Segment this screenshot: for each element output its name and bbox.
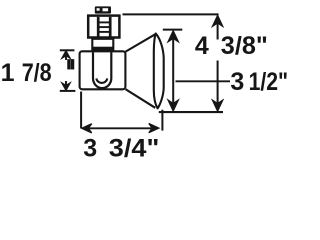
svg-text:3: 3 (83, 135, 97, 163)
svg-text:3/8": 3/8" (221, 32, 268, 60)
svg-text:1: 1 (1, 59, 15, 87)
svg-text:7/8: 7/8 (22, 59, 52, 87)
svg-text:3/4": 3/4" (109, 135, 160, 163)
svg-text:1/2": 1/2" (249, 68, 289, 96)
svg-text:4: 4 (195, 32, 209, 60)
svg-text:3: 3 (230, 68, 244, 96)
